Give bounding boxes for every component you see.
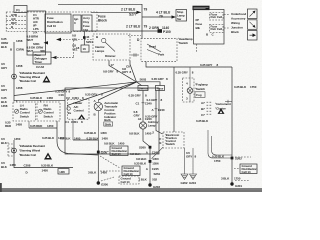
svg-text:Cell 10: Cell 10 xyxy=(47,24,56,28)
svg-text:S261: S261 xyxy=(154,172,161,176)
splice S250 xyxy=(97,151,108,155)
RH radio control switch dashed box xyxy=(37,102,60,121)
svg-text:Demux: Demux xyxy=(139,87,149,91)
svg-text:17: 17 xyxy=(111,63,115,67)
wire from dimmer pin 17 down to junction xyxy=(103,60,137,82)
svg-text:Accessory: Accessory xyxy=(231,17,246,21)
svg-text:0.35 BLK: 0.35 BLK xyxy=(234,85,247,89)
svg-text:Underhood: Underhood xyxy=(231,12,246,16)
wire C208 D to H06 xyxy=(14,158,73,174)
svg-text:1450: 1450 xyxy=(118,142,125,146)
svg-text:¹Module Coil: ¹Module Coil xyxy=(19,79,36,83)
svg-text:C208: C208 xyxy=(24,164,31,168)
wire label 0.8 BRN/WHT 341 xyxy=(27,35,93,46)
svg-text:Dstr Cell: Dstr Cell xyxy=(211,15,223,19)
foglamp ground label xyxy=(196,119,209,123)
svg-text:0.8 GRY: 0.8 GRY xyxy=(103,70,114,74)
wire 3 BLK 1750 to G301 xyxy=(221,177,242,189)
headlamp switch dashed box xyxy=(141,38,177,61)
svg-text:GRY: GRY xyxy=(122,70,128,74)
svg-text:1458: 1458 xyxy=(16,86,23,90)
wire A C240 from fuse cell xyxy=(145,91,165,135)
instrument cluster label xyxy=(215,102,231,111)
traction illumination feed wire xyxy=(174,67,194,132)
svg-text:C240: C240 xyxy=(145,102,152,106)
heater A/C warning triangle xyxy=(78,114,85,119)
svg-text:Cell 14: Cell 14 xyxy=(112,152,121,156)
svg-text:16: 16 xyxy=(83,47,87,51)
wire 3 BLK 1450 to G200 xyxy=(88,171,114,187)
dashed stub to headlamp box xyxy=(128,35,141,37)
connector between dimmer and headlamp switch xyxy=(131,53,139,57)
svg-text:Lamps: Lamps xyxy=(95,49,105,53)
svg-text:G301: G301 xyxy=(235,184,242,188)
svg-text:1458: 1458 xyxy=(16,64,23,68)
svg-text:C7: C7 xyxy=(201,113,205,117)
svg-text:2 LT BLU: 2 LT BLU xyxy=(121,8,136,12)
svg-text:3 BLK: 3 BLK xyxy=(88,171,97,175)
ground distribution cell box (lower) xyxy=(122,166,140,176)
ground distribution cell box right xyxy=(234,164,257,181)
wire from S003 to demux cell xyxy=(137,82,142,86)
inflatable restraint coil (lower) pin stubs xyxy=(8,142,14,157)
svg-text:S250: S250 xyxy=(101,151,108,155)
ground symbol G202 xyxy=(181,174,189,185)
radio feed bus 0.35 ORN/BLK 1458 xyxy=(14,96,65,102)
svg-text:0.35 GRY: 0.35 GRY xyxy=(145,114,157,118)
svg-text:0.8 BLK: 0.8 BLK xyxy=(130,152,141,156)
ground reference dashed box bottom xyxy=(119,176,139,184)
svg-text:GRY: GRY xyxy=(1,88,7,92)
svg-text:0.35 GRY: 0.35 GRY xyxy=(176,70,188,74)
svg-text:1450: 1450 xyxy=(10,163,17,167)
svg-text:2a: 2a xyxy=(68,111,72,115)
svg-text:Dstr Cell: Dstr Cell xyxy=(211,27,223,31)
svg-text:Lamp: Lamp xyxy=(148,123,156,127)
svg-text:1458: 1458 xyxy=(16,39,23,43)
svg-text:Dimmer: Dimmer xyxy=(105,54,117,58)
svg-text:1450: 1450 xyxy=(100,131,107,135)
svg-text:0.35 BLK: 0.35 BLK xyxy=(84,131,97,135)
LH radio control switch dashed box xyxy=(13,102,36,121)
svg-text:Switch: Switch xyxy=(20,114,29,118)
svg-text:¹Foglamp: ¹Foglamp xyxy=(195,83,208,87)
svg-text:1458: 1458 xyxy=(47,96,54,100)
svg-text:2 LT BLU: 2 LT BLU xyxy=(126,24,141,28)
svg-text:C301: C301 xyxy=(71,120,78,124)
svg-text:552: 552 xyxy=(152,178,157,182)
left edge scan nub xyxy=(0,183,2,192)
ground distribution cell box (upper) xyxy=(101,142,128,157)
interior lamps dimmer dashed box xyxy=(93,34,130,60)
wire 2 LT BLU 79 (fuse block to junction) xyxy=(91,8,147,17)
wire from dimmer pin C8 down to junction S003 xyxy=(122,60,137,82)
svg-text:C1: C1 xyxy=(16,8,20,12)
top bus wire xyxy=(58,3,142,5)
svg-text:Cell 14: Cell 14 xyxy=(242,170,251,174)
junction node S003 ray to left xyxy=(14,82,137,97)
wire 2 ORN 1140 with splice P100 xyxy=(91,24,171,34)
svg-text:0.8 BLK: 0.8 BLK xyxy=(60,137,71,141)
svg-text:C5RN: C5RN xyxy=(16,48,24,52)
svg-text:C8: C8 xyxy=(126,65,130,69)
svg-text:1450: 1450 xyxy=(14,137,21,141)
ground wire curve to S250 xyxy=(42,121,98,155)
radio switch ground bus 0.35 RED 1450 xyxy=(5,121,57,129)
svg-text:0.35 RED: 0.35 RED xyxy=(30,124,43,128)
svg-text:1450: 1450 xyxy=(101,171,108,175)
svg-text:Block: Block xyxy=(98,19,107,23)
wire 0.35 ORN/BLK 1458 xyxy=(1,37,24,101)
svg-text:1458: 1458 xyxy=(1,104,8,108)
inflatable restraint lower text xyxy=(19,144,45,157)
underhood junction block main box xyxy=(194,10,230,53)
svg-text:Shift: Shift xyxy=(105,122,111,126)
stop lamp switch box xyxy=(176,10,187,22)
svg-text:1450: 1450 xyxy=(152,157,159,161)
wire 0.8 YEL 43 (fuse to S204) xyxy=(72,31,93,45)
svg-text:BLK: BLK xyxy=(1,45,8,49)
accy courtesy fuse box xyxy=(82,15,92,32)
svg-text:Fog: Fog xyxy=(196,93,201,97)
svg-text:C2 A8: C2 A8 xyxy=(36,65,44,69)
svg-text:3 BLK: 3 BLK xyxy=(221,177,230,181)
wire 0.35 BLK 1750 right xyxy=(232,67,257,183)
svg-text:¹Switch: ¹Switch xyxy=(195,87,205,91)
instrument cluster pins xyxy=(201,100,232,117)
traction switch ground stems xyxy=(185,148,197,174)
svg-text:1 BLK: 1 BLK xyxy=(139,178,148,182)
off-page icon 1 xyxy=(248,9,258,19)
svg-text:2 ORN: 2 ORN xyxy=(149,26,160,30)
A/T indicator text block xyxy=(104,101,119,126)
svg-text:Control: Control xyxy=(74,109,84,113)
svg-text:S277: S277 xyxy=(129,13,137,17)
svg-text:1400: 1400 xyxy=(74,137,81,141)
svg-text:¹Module Coil: ¹Module Coil xyxy=(19,153,36,157)
svg-text:0.4 GRY: 0.4 GRY xyxy=(147,98,158,102)
svg-text:B7: B7 xyxy=(201,107,205,111)
svg-text:G202: G202 xyxy=(181,181,188,185)
ashtray lamp xyxy=(139,120,158,129)
svg-text:1750: 1750 xyxy=(250,85,257,89)
svg-text:1750: 1750 xyxy=(214,159,221,163)
svg-text:Wiring: Wiring xyxy=(231,21,240,25)
electronic traction control switch dashed box xyxy=(160,132,185,148)
SIR warning triangle xyxy=(43,76,51,83)
svg-text:Block: Block xyxy=(231,30,239,34)
svg-text:A1: A1 xyxy=(138,117,142,121)
wire 4 LT BLU 79 to stop lamp switch xyxy=(142,11,176,19)
fuse 16 small box xyxy=(72,44,89,53)
ground symbol G204 xyxy=(189,174,197,185)
foglamp switch xyxy=(183,67,208,102)
svg-text:WHT: WHT xyxy=(27,49,34,53)
wire label 0.35 BLK 1458 (stack left) xyxy=(1,96,8,108)
svg-text:0.35 BLK: 0.35 BLK xyxy=(87,137,100,141)
wire ashtray lamp ground xyxy=(129,129,152,147)
svg-text:H06: H06 xyxy=(60,170,66,174)
svg-text:0.8 BLK: 0.8 BLK xyxy=(136,157,147,161)
svg-text:RED: RED xyxy=(5,124,12,128)
svg-text:Park: Park xyxy=(158,53,165,57)
svg-text:79: 79 xyxy=(159,14,163,18)
lower SIR warning triangle xyxy=(44,153,52,160)
svg-text:GRY: GRY xyxy=(1,66,7,70)
wire label 0.8 DK GRN 308 xyxy=(27,46,46,53)
splice S263 xyxy=(212,155,251,164)
instrument cluster warning triangle xyxy=(218,108,225,114)
svg-text:1450: 1450 xyxy=(42,169,49,173)
svg-text:Head: Head xyxy=(149,45,156,49)
H06 off-page box xyxy=(58,169,69,174)
heater A/C control dashed box xyxy=(66,96,89,119)
off-page icon 3 xyxy=(248,31,258,41)
svg-text:0.35 GRY: 0.35 GRY xyxy=(129,94,141,98)
svg-text:Switch: Switch xyxy=(44,114,53,118)
wire 3.5 GRY 1458 + SIR coil connector xyxy=(1,62,23,92)
svg-text:0.35 BLK: 0.35 BLK xyxy=(30,96,43,100)
svg-text:S260: S260 xyxy=(139,146,146,150)
svg-text:0.35 BLK: 0.35 BLK xyxy=(41,164,54,168)
svg-text:0.35 GRY: 0.35 GRY xyxy=(152,77,164,81)
demux cell box xyxy=(138,86,149,91)
svg-text:¹Switch: ¹Switch xyxy=(165,142,175,146)
svg-text:C245: C245 xyxy=(152,167,159,171)
rear defogger timer box xyxy=(33,40,74,69)
svg-text:0.35 BLK: 0.35 BLK xyxy=(212,155,225,159)
svg-text:0.8 BLK: 0.8 BLK xyxy=(104,142,115,146)
fuse block dashed enclosure xyxy=(6,12,97,32)
ray to heater control xyxy=(67,82,137,106)
wire from S003 to fuse cell xyxy=(137,82,161,86)
bottom scan bar xyxy=(0,188,262,192)
svg-text:Timer: Timer xyxy=(35,60,44,64)
fuse block title xyxy=(98,15,107,23)
svg-text:0.35 BLK: 0.35 BLK xyxy=(196,119,209,123)
heater ground pin label xyxy=(65,119,83,140)
node/wire vertical 142 to headlamp switch xyxy=(137,4,142,42)
fuse cell box xyxy=(156,86,165,91)
svg-text:1556: 1556 xyxy=(152,162,159,166)
svg-text:79: 79 xyxy=(144,24,148,28)
svg-text:79: 79 xyxy=(144,8,148,12)
dashed arrows S250 to ground distribution cell (lower) xyxy=(100,156,121,171)
A/T control position indicator bulb xyxy=(94,99,103,140)
svg-text:¹Switch: ¹Switch xyxy=(178,41,188,45)
connector pin stub row (left of box A) xyxy=(6,13,27,29)
wire 0.5 BLK 1450 labels xyxy=(1,137,21,169)
svg-text:A7: A7 xyxy=(201,101,205,105)
svg-text:1458: 1458 xyxy=(16,122,23,126)
svg-text:0.35 BLK: 0.35 BLK xyxy=(42,136,55,140)
svg-text:¹Inflatable Restraint: ¹Inflatable Restraint xyxy=(19,144,45,148)
ray to A/T bulb xyxy=(98,82,136,100)
svg-text:1450: 1450 xyxy=(47,124,54,128)
wire traction switch ground to S260 xyxy=(152,147,164,159)
svg-text:Fuse: Fuse xyxy=(157,87,164,91)
svg-text:43: 43 xyxy=(86,35,90,39)
svg-text:BLK: BLK xyxy=(1,141,8,145)
fuse distribution cell box xyxy=(45,14,71,33)
big I/P cluster box xyxy=(65,88,159,154)
splice S003 labels xyxy=(140,77,169,81)
svg-text:S003: S003 xyxy=(140,77,147,81)
svg-text:C4: C4 xyxy=(65,120,69,124)
underhood accessory wiring junction block label xyxy=(231,12,246,34)
svg-text:Cell 14: Cell 14 xyxy=(124,172,133,176)
svg-text:0.8 BLK: 0.8 BLK xyxy=(129,132,140,136)
svg-text:1450: 1450 xyxy=(145,132,152,136)
svg-text:0.35 BLK: 0.35 BLK xyxy=(134,162,147,166)
right ground wire with splices xyxy=(130,146,161,189)
ground bus inside cluster box 0.35 BLK 1450 xyxy=(60,131,108,182)
svg-text:C16: C16 xyxy=(59,93,65,97)
svg-text:G204: G204 xyxy=(189,181,196,185)
svg-text:G200: G200 xyxy=(101,183,108,187)
svg-text:Blk: Blk xyxy=(196,26,201,30)
svg-text:0.35 GRY: 0.35 GRY xyxy=(200,63,212,67)
svg-text:¹Steering Wheel: ¹Steering Wheel xyxy=(19,149,40,153)
connector tag box top-left xyxy=(14,6,27,13)
wire 0.35 GRY 8 (headlamp to right) xyxy=(146,62,232,68)
inflatable restraint coil lower connector xyxy=(12,140,17,158)
svg-text:10A: 10A xyxy=(83,28,89,32)
inflatable restraint steering wheel module coil label xyxy=(19,71,45,83)
headlamp switch label xyxy=(178,37,193,45)
wire C1 C240 to ashtray lamp xyxy=(129,91,153,122)
courtesy fuse box xyxy=(73,15,81,31)
off-page icon 2 xyxy=(248,20,258,30)
svg-text:E: E xyxy=(160,141,162,145)
svg-text:GRY: GRY xyxy=(186,154,192,158)
svg-text:18: 18 xyxy=(76,46,80,50)
svg-text:P100: P100 xyxy=(163,30,171,34)
svg-text:1750: 1750 xyxy=(234,177,241,181)
connector C1 box A xyxy=(27,11,46,55)
instrument cluster housing corner xyxy=(208,130,232,158)
svg-text:1450: 1450 xyxy=(102,137,109,141)
svg-text:BLK: BLK xyxy=(1,165,8,169)
svg-text:¹Instrument: ¹Instrument xyxy=(215,102,231,106)
underhood junction block: hot at all times tag xyxy=(193,6,210,10)
svg-text:Junction: Junction xyxy=(231,26,243,30)
svg-text:Cell 14: Cell 14 xyxy=(121,180,130,184)
svg-text:C1: C1 xyxy=(136,102,140,106)
svg-text:C240: C240 xyxy=(158,108,165,112)
svg-text:S204: S204 xyxy=(86,40,93,44)
